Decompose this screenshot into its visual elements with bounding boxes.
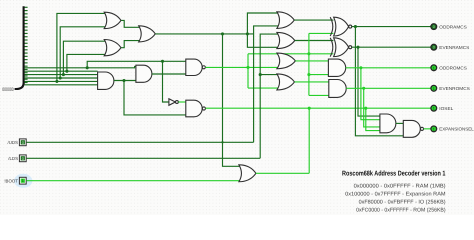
wire /UDS row [26,141,253,143]
output pin EVENROMCS [431,85,470,91]
svg-text:0x100000 - 0x7FFFFF - Expansio: 0x100000 - 0x7FFFFF - Expansion RAM [345,192,446,198]
wire XNOR1.out -> pin ODDRAMCS [352,26,431,28]
and-gate E (2-input AND) [136,65,152,82]
wire C riser up -> OR1.in1 [247,13,279,34]
wire row6 bus->AND D.in5 [25,84,98,86]
wire v1 riser A23 -> OR A.in1 [57,13,108,81]
node F.out riser junction [246,66,249,69]
node AND3.out branch [359,66,362,69]
wire /LDS row [26,157,260,159]
memory map text [345,183,446,213]
xnor-gate XNOR2 [330,38,352,57]
wire v3 riser A21 -> OR B.in1 [63,41,107,74]
and-gate AND3 [328,59,345,76]
wire H.out IOSEL run (bright) [206,107,432,109]
nand-gate H [186,100,206,117]
and-gate D (4-input AND) [98,72,114,89]
xnor-gate XNOR1 [330,17,352,36]
svg-text:ODDROMCS: ODDROMCS [439,66,467,71]
svg-text:EXPANSIONSEL: EXPANSIONSEL [439,127,474,132]
wire XNOR2.out -> pin EVENRAMCS [352,46,431,48]
wire OR4.out -> AND4.in1 (bright) [295,81,329,83]
output pin EVENRAMCS [431,44,470,50]
wire IOSEL tap -> AND I.in4 (bright) [366,108,380,130]
wire F riser bottom -> OR4.in2 [248,87,279,89]
or-gate OR1 [277,12,294,29]
svg-text:EVENROMCS: EVENROMCS [439,86,470,91]
wire D.out branch down -> NAND H.in2 [124,81,186,115]
and-gate AND4 [329,80,346,98]
title text [342,169,446,177]
svg-text:!BOOT: !BOOT [4,179,18,184]
wire B.out -> OR C.in2 [121,41,141,48]
output pin IOSEL [431,105,454,111]
wire D.out -> AND E.in2 [114,80,136,82]
wire A.out -> OR C.in1 [121,20,141,27]
wire row2 bus->AND D.in1 [25,70,98,72]
node OR1 branch junction [246,32,249,35]
wire /UDS riser -> OR1.in2 [254,26,279,142]
wire net1 -> AND3.in2 (bright) [309,74,329,76]
wire AND4 riser -> AND I.in3 (bright) [364,88,380,127]
bus splitter ticks (A0-A23 legs) [24,7,27,82]
svg-text:000000: 000000 [2,87,14,93]
wire C branch down to OR Z.in1 [223,34,242,166]
wire row5 bus->AND D.in4 [25,80,98,82]
node XNOR2.out branch [356,46,359,49]
wire F.out -> OR3.in2 (bright) [205,66,279,68]
wire AND3.out -> pin ODDROMCS (bright) [346,67,431,69]
probe value label 000000 [2,87,14,93]
svg-text:1: 1 [433,127,435,131]
wire Z.out -> riser (bright) [256,172,309,174]
wire XNOR1 riser -> NAND H2.in2 [355,27,403,136]
node Z-branch junction [221,32,224,35]
node v2 lands row4 [59,76,62,79]
node AND4.out branch [362,87,365,90]
node net1 junction [307,52,310,55]
wire riser to inverter G [163,61,169,102]
node v4 lands row2 [65,70,68,73]
node v1 lands row5 [55,80,58,83]
or-gate B (2-input OR) [104,40,121,56]
svg-text:1: 1 [22,178,24,183]
wire v4 riser A20 -> OR B.in2 [67,54,108,71]
wire AND3 riser -> AND I.in2 (bright) [361,68,380,120]
output pin EXPANSIONSEL [431,126,474,132]
node OR4.in1 tap on /LDS riser [259,73,262,76]
wire row4 bus->AND D.in3 [25,77,98,79]
wire F riser (bright) [247,54,249,88]
wire Z riser up to IOSEL line (bright) [308,108,310,173]
svg-text:0xFC0000 - 0xFFFFFF - ROM (256: 0xFC0000 - 0xFFFFFF - ROM (256KB) [356,208,446,214]
wire E.out -> NAND F.in2 [152,73,186,75]
wire C riser down -> OR2.in2 [247,34,279,47]
or-gate Z (2-input OR) [239,165,256,182]
and-gate I (4-input AND) [380,114,396,133]
wire OR3.out -> AND3.in1 (bright) [295,60,328,62]
svg-text:0: 0 [433,25,435,29]
bus splitter spine (24-bit, black) [15,6,24,89]
svg-text:1: 1 [433,66,435,70]
svg-text:/LDS: /LDS [8,156,18,161]
or-gate A (2-input OR) [104,12,121,28]
output pin ODDRAMCS [431,24,467,30]
node net1 AND3.in2 tap [307,73,310,76]
not-gate G (inverter) [169,99,178,106]
output pin ODDROMCS [431,65,467,71]
svg-text:0x000000 - 0x0FFFFF - RAM (1MB: 0x000000 - 0x0FFFFF - RAM (1MB) [354,183,446,189]
wire OR2.out -> XNOR2.in1 [295,40,334,42]
or-gate OR2 [277,32,295,48]
svg-text:/UDS: /UDS [8,140,19,145]
input pin !BOOT [4,177,26,184]
svg-text:1: 1 [433,87,435,91]
wire G.out -> NAND H.in1 (bright) [178,101,185,103]
wire row3 bus->AND D.in2 [25,74,98,76]
or-gate OR4 [277,74,295,90]
wire net1 top run -> XNOR2.in2 region [248,53,333,55]
input pin !BOOT halo [14,174,32,188]
input pin /LDS [8,155,26,162]
svg-text:IOSEL: IOSEL [439,106,454,111]
node /UDS crossing blob [221,141,223,143]
node D.out branch [122,79,125,82]
wire AND4.out -> pin EVENROMCS (bright) [346,87,431,89]
wire net1 riser (bright) [308,33,310,95]
node AND-I in4 tap [364,107,367,110]
svg-text:EVENRAMCS: EVENRAMCS [439,45,469,50]
wire !BOOT row -> OR Z.in2 (bright) [26,180,241,182]
wire net1 -> AND4.in2 (bright) [309,94,329,96]
wire net-alpha riser + run -> NAND F.in1 [87,61,186,68]
or-gate C (2-input OR) [139,26,156,42]
node v3 lands row3 [62,73,65,76]
wire H2.out -> pin EXPANSIONSEL (bright) [424,128,431,130]
svg-text:Roscom68k Address Decoder vers: Roscom68k Address Decoder version 1 [342,169,446,177]
svg-text:0xF80000 - 0xFBFFFF - IO (256K: 0xF80000 - 0xFBFFFF - IO (256KB) [359,200,446,206]
wire v2 riser A22 -> OR A.in2 [60,27,107,78]
wire /LDS riser -> OR2.in1 [260,34,279,158]
node XNOR1.out branch [354,25,357,28]
nand-gate H2 [403,120,423,137]
node G-riser junction on net alpha [161,60,164,63]
wire AND I.out -> NAND H2.in1 [396,122,403,124]
wire XNOR2 riser -> AND I.in1 [358,47,380,116]
svg-text:0: 0 [433,46,435,50]
svg-text:1: 1 [433,107,435,111]
node Z riser joins IOSEL line [308,107,311,110]
wire OR4.in1 stub [260,74,279,76]
nand-gate F [186,59,206,75]
node net-alpha tap on row1 [86,66,89,69]
svg-text:ODDRAMCS: ODDRAMCS [439,24,467,29]
or-gate OR3 [277,53,296,69]
wire row1 bus->jog->AND E.in1 [25,66,136,67]
wire net1 -> XNOR1.in2 (bright) [309,32,334,34]
wire C.out long run [155,33,254,35]
input pin /UDS [8,139,27,146]
wire OR1.out -> XNOR1.in1 [294,19,333,21]
